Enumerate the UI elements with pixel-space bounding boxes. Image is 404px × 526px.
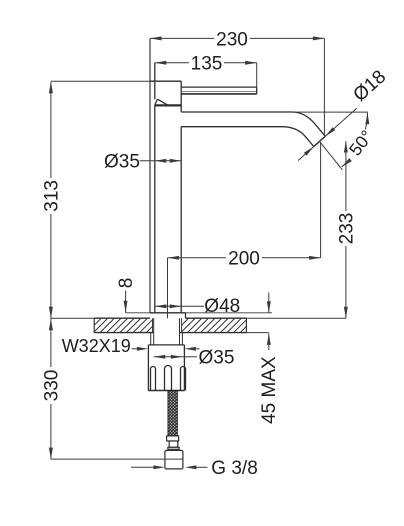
wire threaded shank inner-right [179, 318, 181, 345]
dimension oe18 leader top [325, 108, 356, 136]
dimension 50deg arc [342, 113, 370, 167]
dimension 200 line [168, 256, 321, 260]
wire handle wedge diagonal right [158, 99, 168, 105]
dimension 135 line [155, 61, 257, 65]
dimension 230 line [150, 36, 324, 40]
dimension oe35 upper line [140, 159, 182, 163]
label oe35 lower text [199, 348, 235, 369]
wire deck top line with 313-330 and 233 extensions [51, 317, 346, 319]
label oe18 text [349, 66, 390, 106]
dimension 50deg text [345, 126, 377, 159]
wire handle lever inner line [181, 90, 257, 92]
wire base flange right edge [185, 313, 187, 318]
wire threaded shank outer-right [181, 333, 183, 345]
svg-text:330: 330 [41, 370, 62, 402]
dimension 8 leader [124, 291, 128, 313]
wire deck hole left edge [152, 318, 154, 332]
wire flange-top extension line right for 45MAX dim [186, 312, 273, 314]
wire deck bottom line [94, 332, 269, 334]
wire threaded shank inner-left [153, 318, 155, 345]
dimension 45MAX text [259, 356, 280, 424]
svg-text:8: 8 [116, 278, 137, 289]
dimension 200 text [228, 249, 260, 270]
wire mounting nut right edge [183, 345, 185, 391]
wire deck hole right edge [181, 318, 183, 332]
wire faucet body outer-left silhouette and 230 extension line [149, 38, 151, 312]
wire handle base bottom edge [155, 104, 181, 106]
wire hose ferrule [167, 436, 179, 441]
wire spout bottom edge with bend [181, 127, 314, 147]
wire spout end cut face [314, 136, 326, 146]
wire threaded shank outer-left [150, 333, 152, 345]
svg-text:230: 230 [216, 29, 248, 50]
label W32X19 text [62, 336, 131, 356]
wire flange-top extension line left for 8 dim [126, 312, 150, 314]
svg-text:233: 233 [336, 213, 357, 245]
wire faucet top face and 313 top extension line [51, 80, 181, 82]
dimension 135 right extension [256, 63, 258, 87]
deck hatching left of faucet [94, 319, 152, 333]
wire hose neck [169, 441, 178, 447]
wire mounting nut bottom [148, 390, 184, 392]
dimension 135 text [191, 54, 223, 75]
dimension 45MAX lower arrow [267, 333, 271, 350]
dimension 233 line [344, 141, 348, 318]
wire faucet body right edge (oe35 column) [180, 81, 182, 313]
svg-text:313: 313 [41, 180, 62, 212]
flexible hose braided texture [168, 391, 177, 436]
dimension 313 text [41, 180, 62, 212]
wire deck right edge [245, 318, 247, 332]
wire mounting nut left edge [147, 345, 149, 391]
dimension 200 left extension (body centerline) [167, 258, 169, 318]
wire fitting collar [168, 447, 179, 449]
svg-text:Ø35: Ø35 [104, 152, 140, 173]
dimension oe48 line [155, 304, 204, 308]
dimension G3/8 left arrow [131, 465, 165, 469]
label G3/8 text [211, 458, 257, 479]
dimension 233 text [336, 213, 357, 245]
dimension G3/8 right arrow [185, 465, 208, 469]
svg-text:Ø48: Ø48 [204, 296, 240, 317]
dimension 230 right extension [323, 38, 325, 135]
dimension 200 right extension (spout outlet line) [320, 142, 322, 258]
svg-text:45 MAX: 45 MAX [259, 356, 280, 424]
label oe35 upper text [104, 152, 140, 173]
dimension 330 line [49, 318, 53, 459]
wire faucet body left edge (oe35 column) and 135 extension line [154, 63, 156, 313]
deck hatching right of faucet [182, 319, 247, 333]
wire spout top edge with bend [181, 112, 325, 136]
wire 50deg horizontal reference line [293, 111, 368, 113]
wire 50deg direction line [320, 142, 342, 170]
dimension 230 text [216, 29, 248, 50]
wire G3/8 end fitting body [165, 450, 183, 469]
dimension 330 text [41, 370, 62, 402]
wire handle lever bottom edge [181, 93, 257, 95]
svg-text:200: 200 [228, 249, 260, 270]
dimension oe18 leader bottom [298, 147, 314, 161]
svg-text:G 3/8: G 3/8 [211, 458, 257, 479]
wire handle lever right end [256, 87, 258, 94]
dimension W32X19 leader [132, 347, 200, 351]
svg-text:W32X19: W32X19 [62, 336, 131, 356]
dimension 330 bottom extension [51, 458, 183, 460]
svg-text:135: 135 [191, 54, 223, 75]
wire base flange top [150, 312, 186, 314]
wire mounting nut top [148, 344, 184, 346]
dimension 313 line [49, 82, 53, 319]
wire deck left edge [93, 318, 95, 332]
dimension 45MAX upper arrow [267, 293, 271, 313]
mounting nut knurl grooves [151, 366, 186, 391]
dimension 8 text [116, 278, 137, 289]
label oe48 text [204, 296, 240, 317]
wire handle lever top edge [181, 86, 257, 88]
dimension oe35 lower double arrow [154, 355, 197, 359]
wire handle wedge diagonal left [155, 99, 158, 105]
svg-text:Ø35: Ø35 [199, 348, 235, 369]
